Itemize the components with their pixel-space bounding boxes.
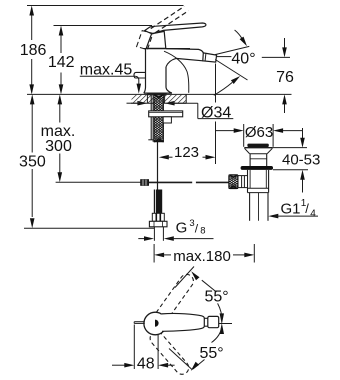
- svg-text:4: 4: [310, 208, 316, 219]
- svg-text:G1: G1: [281, 201, 301, 218]
- svg-text:max.45: max.45: [80, 62, 133, 79]
- svg-text:55°: 55°: [200, 345, 224, 362]
- svg-text:max.180: max.180: [173, 248, 231, 265]
- svg-text:300: 300: [45, 138, 72, 155]
- svg-text:G: G: [176, 219, 188, 236]
- svg-text:8: 8: [200, 225, 205, 236]
- svg-text:/: /: [195, 221, 199, 235]
- svg-text:Ø63: Ø63: [245, 124, 273, 141]
- svg-text:40°: 40°: [231, 50, 255, 67]
- svg-text:55°: 55°: [205, 289, 229, 306]
- svg-text:48: 48: [137, 355, 155, 372]
- svg-text:Ø34: Ø34: [201, 104, 231, 121]
- svg-text:186: 186: [20, 42, 47, 59]
- svg-text:76: 76: [276, 69, 294, 86]
- svg-text:40-53: 40-53: [282, 151, 320, 168]
- svg-text:/: /: [305, 201, 309, 216]
- svg-text:142: 142: [48, 54, 75, 71]
- svg-text:350: 350: [19, 154, 46, 171]
- svg-text:123: 123: [174, 144, 199, 161]
